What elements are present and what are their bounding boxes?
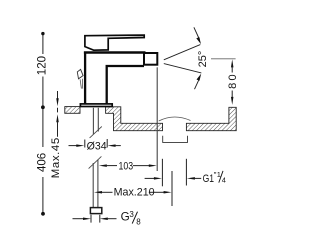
svg-text:4: 4 — [222, 175, 226, 184]
Max.210 dimension — [94, 191, 102, 194]
G3/8 dimension — [90, 215, 92, 223]
deck left strip (hatched ceramic rim, left of faucet) — [65, 107, 80, 114]
svg-text:Max.45: Max.45 — [50, 138, 62, 179]
faucet body right edge + spout underside — [107, 66, 144, 104]
aerator square at spout tip — [144, 53, 157, 65]
deck right piece with outer rim wall — [186, 107, 236, 130]
hose break diagonal 1 — [90, 127, 102, 138]
25 deg angle rays — [164, 45, 201, 60]
dim dot bottom — [41, 212, 45, 216]
25 deg upper arc arrow — [194, 27, 200, 39]
side detail tag on body — [77, 69, 83, 78]
dim dot top — [41, 32, 44, 35]
diameter 34 dimension — [84, 140, 86, 148]
svg-text:8: 8 — [136, 218, 141, 227]
Max.45 dimension — [57, 91, 59, 99]
svg-text:G1: G1 — [203, 173, 214, 185]
80 dimension — [211, 58, 236, 60]
svg-text:120: 120 — [36, 56, 48, 75]
svg-text:25°: 25° — [197, 51, 209, 68]
faucet body top edge — [84, 51, 146, 53]
dimension main vertical line (120/406) — [42, 34, 44, 54]
supply hose upper segment — [92, 108, 94, 135]
G1 1/4 dimension — [161, 159, 163, 187]
deck mid piece with inner bowl wall — [106, 107, 163, 131]
drain dome arc over hole — [159, 117, 191, 121]
hose break diagonal 2 — [89, 156, 102, 168]
103 dimension — [99, 164, 107, 167]
supply hose lower segment — [92, 163, 94, 207]
svg-text:406: 406 — [36, 153, 48, 172]
drain tailpiece bracket under hole — [163, 136, 188, 143]
svg-text:G: G — [121, 211, 130, 224]
25 deg lower arc arrow — [195, 79, 200, 89]
faucet base plate — [80, 104, 112, 107]
dim dot middle — [41, 105, 45, 109]
G3/8 connector nut — [90, 208, 101, 214]
svg-text:Ø34: Ø34 — [87, 141, 107, 153]
water outlet axis line — [156, 67, 158, 171]
svg-text:103: 103 — [119, 160, 134, 172]
svg-text:3: 3 — [129, 210, 134, 219]
svg-text:Max.210: Max.210 — [114, 186, 155, 198]
faucet body left edge — [84, 52, 86, 104]
faucet lever handle — [85, 35, 144, 50]
